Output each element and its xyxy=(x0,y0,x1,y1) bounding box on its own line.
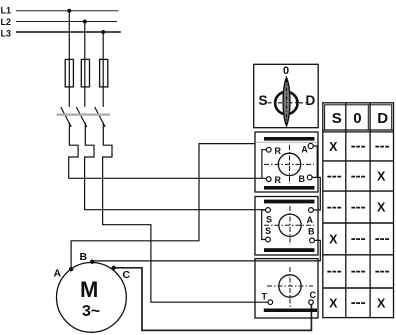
motor terminal dot C xyxy=(111,266,115,270)
svg-text:A: A xyxy=(307,215,314,225)
module 2 cam bar bottom xyxy=(264,248,315,252)
svg-text:D: D xyxy=(306,93,316,108)
module 1 cam bar top xyxy=(264,137,315,141)
svg-text:---: --- xyxy=(351,263,366,280)
fuse F2 xyxy=(81,59,89,87)
table header inner border xyxy=(325,105,392,130)
svg-text:---: --- xyxy=(351,167,366,184)
contact table outer frame xyxy=(323,103,394,318)
knob dash-dot axis xyxy=(268,102,308,104)
svg-text:---: --- xyxy=(351,230,366,247)
svg-text:0: 0 xyxy=(353,110,361,127)
svg-text:L3: L3 xyxy=(1,29,12,39)
module 1 cam bar bottom xyxy=(264,186,315,190)
svg-text:C: C xyxy=(310,290,317,300)
module 3 cam bar bottom xyxy=(264,309,317,313)
svg-text:3~: 3~ xyxy=(82,303,100,320)
module 2 terminal S bottom xyxy=(266,237,271,242)
svg-text:R: R xyxy=(275,146,282,156)
svg-text:T: T xyxy=(262,292,268,302)
svg-text:M: M xyxy=(80,277,98,302)
table row line 5 xyxy=(323,287,394,289)
motor terminal dot A xyxy=(69,267,73,271)
svg-text:X: X xyxy=(377,296,386,310)
wire phase 2 drop xyxy=(84,22,86,107)
table header inner line 0|D xyxy=(367,105,369,130)
overload pole 1 with wire to module 1 xyxy=(69,123,267,179)
overload pole 3 with wire to module 3 terminal T xyxy=(103,123,268,303)
svg-text:0: 0 xyxy=(283,65,289,77)
svg-text:L1: L1 xyxy=(1,6,12,16)
fuse F1 xyxy=(65,59,73,87)
module 2 terminal S top xyxy=(266,208,271,213)
switch blade pole 3 xyxy=(95,107,106,127)
svg-text:X: X xyxy=(377,201,386,215)
svg-text:X: X xyxy=(329,296,338,310)
svg-text:A: A xyxy=(54,268,62,280)
knob ring xyxy=(275,92,297,114)
switch linkage bar xyxy=(57,113,111,115)
module 3 terminal T xyxy=(268,300,273,305)
svg-text:---: --- xyxy=(327,263,342,280)
module 2 cam circle xyxy=(279,214,301,236)
svg-text:S: S xyxy=(259,93,268,108)
svg-text:L2: L2 xyxy=(1,17,12,27)
wire phase 3 drop xyxy=(102,32,104,107)
module 3 crosshair vertical xyxy=(289,267,291,307)
table row line 3 xyxy=(323,222,394,224)
svg-text:---: --- xyxy=(375,230,390,247)
module 1 terminal B xyxy=(307,175,312,180)
cam switch knob box xyxy=(254,64,319,127)
module 3 terminal C xyxy=(309,300,314,305)
module 2 crosshair vertical xyxy=(289,206,291,245)
svg-text:B: B xyxy=(299,174,306,184)
module 2 cam bar top xyxy=(264,200,315,204)
svg-text:B: B xyxy=(80,251,88,263)
module 1 crosshair horizontal xyxy=(264,163,314,165)
wire module 1 A to module 1 B xyxy=(313,146,317,177)
svg-text:X: X xyxy=(377,170,386,184)
wire module 1 B to module 2 A xyxy=(312,177,320,210)
svg-text:---: --- xyxy=(375,263,390,280)
contact module 3 box xyxy=(255,259,318,318)
fuse F3 xyxy=(100,59,108,87)
svg-text:S: S xyxy=(266,215,272,225)
svg-text:---: --- xyxy=(375,138,390,155)
wire L2 line xyxy=(16,21,117,23)
module 1 bracket R-R xyxy=(262,150,266,179)
svg-text:R: R xyxy=(275,175,282,185)
contact module 2 box xyxy=(255,197,318,256)
svg-text:---: --- xyxy=(351,198,366,215)
module 3 cam circle xyxy=(279,275,301,297)
switch blade pole 1 xyxy=(61,107,72,127)
svg-text:S: S xyxy=(265,226,271,236)
module 1 terminal R bottom xyxy=(266,177,271,182)
module 2 terminal B xyxy=(310,238,315,243)
node junction L1 xyxy=(67,9,71,13)
motor terminal dot B xyxy=(90,260,94,264)
wire motor B to module 2 terminal B xyxy=(92,240,320,261)
knob handle lens xyxy=(283,78,290,126)
wire L3 line xyxy=(16,31,121,33)
table column line 1 xyxy=(345,103,347,318)
table row line 4 xyxy=(323,254,394,256)
table row line 2 xyxy=(323,190,394,192)
svg-text:---: --- xyxy=(351,294,366,311)
motor M1 circle xyxy=(57,263,127,333)
module 3 crosshair horizontal xyxy=(267,285,313,287)
svg-text:D: D xyxy=(377,110,388,127)
module 1 terminal R top xyxy=(266,147,271,152)
table header separator double line xyxy=(323,129,394,131)
wire phase 1 drop xyxy=(68,11,70,107)
module 2 crosshair horizontal xyxy=(264,224,314,226)
overload pole 2 with wire to module 2 xyxy=(85,123,266,210)
svg-text:X: X xyxy=(329,140,338,154)
svg-text:---: --- xyxy=(351,138,366,155)
svg-text:S: S xyxy=(332,110,342,127)
svg-text:C: C xyxy=(123,269,131,281)
knob handle center dash line xyxy=(286,79,288,125)
module 1 terminal A xyxy=(308,143,313,148)
svg-text:---: --- xyxy=(327,198,342,215)
node junction L2 xyxy=(83,20,87,24)
node junction L3 xyxy=(101,30,105,34)
module 1 gray line xyxy=(256,141,317,143)
switch blade pole 2 xyxy=(76,107,87,127)
module 2 terminal A xyxy=(309,208,314,213)
svg-text:B: B xyxy=(308,227,315,237)
module 2 bracket S-S xyxy=(262,210,266,240)
svg-text:A: A xyxy=(301,145,308,155)
wire motor C to module 3 terminal C xyxy=(114,268,312,331)
module 1 cam circle xyxy=(278,153,300,175)
svg-text:---: --- xyxy=(327,167,342,184)
svg-text:X: X xyxy=(329,232,338,246)
table row line 1 xyxy=(323,160,394,162)
wire motor A to module 1 xyxy=(71,144,255,270)
table column line 2 xyxy=(369,103,371,318)
wire L1 line xyxy=(16,10,119,12)
contact module 1 box xyxy=(255,132,318,192)
module 1 crosshair vertical xyxy=(289,145,291,184)
